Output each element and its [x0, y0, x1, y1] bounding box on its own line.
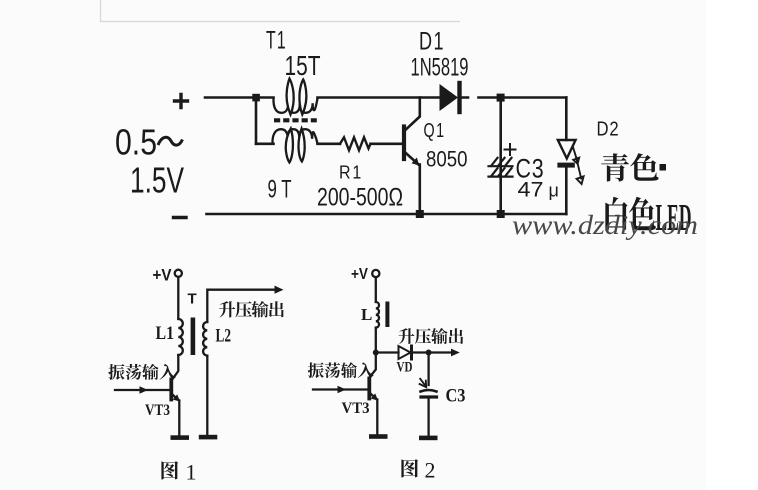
fig2 diode VD cathode bar [410, 346, 413, 359]
svg-text:1: 1 [186, 460, 197, 485]
svg-text:1N5819: 1N5819 [411, 54, 469, 82]
label cyan color [601, 153, 629, 181]
fig2 +V terminal circle [372, 270, 379, 277]
node junction emitter-bottom [416, 210, 424, 218]
svg-text:VT3: VT3 [342, 400, 370, 417]
svg-text:9 T: 9 T [268, 176, 292, 204]
LED D2 light arrow 1 [573, 147, 579, 164]
diode D1 cathode bar [457, 83, 461, 112]
fig2 capacitor C3 bottom plate [421, 395, 437, 398]
fig2 node L/VD junction [373, 350, 379, 356]
fig2 VT3 emitter [370, 393, 377, 400]
svg-text:+V: +V [351, 266, 368, 283]
fig1 output arrowhead [275, 286, 284, 294]
wire transformer bottom-left stub [256, 143, 274, 146]
resistor R1 zigzag [340, 137, 371, 150]
fig2 input arrowhead [338, 386, 347, 394]
transistor Q1 base bar [402, 127, 406, 160]
fig2 output arrowhead [451, 349, 460, 357]
fig2 wire node to VD [376, 351, 399, 353]
svg-text:0.5: 0.5 [115, 122, 157, 163]
transformer T1 primary winding 15T [273, 79, 317, 115]
capacitor C3 plus mark [505, 144, 516, 155]
fig1 wire L2 top to output corner [207, 290, 276, 322]
wire 9T to R1 [318, 143, 341, 146]
fig2 label osc input [308, 362, 324, 378]
fig2 wire C3 to ground [427, 398, 429, 436]
svg-text:C3: C3 [446, 386, 466, 407]
svg-text:T: T [188, 291, 197, 308]
fig1 wire emitter to ground [178, 401, 180, 435]
svg-text:L2: L2 [216, 326, 232, 347]
svg-text:VD: VD [397, 360, 413, 376]
fig2 wire VD to output node [412, 351, 456, 353]
fig2 base input wire [313, 388, 368, 390]
diode D1 anode triangle [440, 84, 459, 111]
svg-text:+V: +V [153, 266, 173, 285]
svg-text:VT3: VT3 [145, 402, 170, 419]
fig2 ground VT3 [369, 434, 388, 439]
fig1 ground L2 [199, 435, 218, 440]
fig2 wire node down to C3 [427, 353, 429, 386]
wire LED branch vertical top [565, 98, 568, 141]
transformer T1 core (dashed) [274, 118, 317, 122]
wire top rail left [205, 96, 274, 99]
wire D1 to node (with print gap) [461, 96, 497, 99]
svg-text:L1: L1 [156, 323, 175, 344]
node junction C3 bottom [497, 210, 505, 218]
faint page border line [101, 0, 461, 22]
fig1 base input wire [115, 389, 170, 391]
fig1 input arrowhead [140, 386, 149, 394]
fig1 ground VT3 [171, 435, 190, 440]
svg-text:D1: D1 [419, 28, 445, 56]
fig2 ground C3 [419, 436, 438, 441]
fig1 wire L2 bottom to ground [206, 356, 208, 435]
wire Q1 emitter to bottom rail [418, 165, 421, 215]
capacitor C3 bottom plate [489, 168, 513, 176]
transistor Q1 collector wire [405, 98, 420, 131]
LED D2 triangle [558, 140, 576, 159]
svg-text:L: L [361, 305, 372, 324]
fig1 caption [161, 461, 178, 479]
wire top rail to D1 [318, 96, 440, 99]
fig2 VT3 collector wire [370, 353, 376, 378]
wire bottom rail [207, 213, 567, 216]
label white LED [605, 197, 627, 231]
fig2 wire +V down to L [375, 277, 377, 301]
svg-text:www.dzdiy.com: www.dzdiy.com [512, 210, 698, 240]
svg-text:2: 2 [425, 458, 436, 483]
fig1 VT3 base bar [169, 380, 173, 400]
fig2 capacitor C3 top plate [421, 390, 437, 392]
svg-text:D2: D2 [597, 119, 620, 141]
wire node to LED branch corner [504, 96, 566, 99]
svg-text:1.5V: 1.5V [130, 160, 184, 201]
node junction after D1 [497, 94, 505, 102]
fig1 label boost output [219, 301, 235, 317]
fig2 inductor L winding [376, 302, 379, 328]
transformer T1 secondary winding 9T [272, 129, 317, 163]
wire C3 branch vertical [499, 98, 502, 215]
fig2 label boost output [399, 328, 415, 344]
fig1 inductor L2 winding [203, 322, 207, 356]
node junction top-left [252, 94, 260, 102]
fig1 transformer core bar [191, 318, 196, 356]
svg-text:200-500Ω: 200-500Ω [317, 184, 403, 212]
fig2 caption [401, 459, 418, 477]
fig2 node VD/C3 junction [426, 350, 432, 356]
fig2 diode VD triangle [399, 346, 411, 359]
wire R1 to Q1 base [371, 143, 403, 146]
svg-text:8050: 8050 [426, 147, 468, 172]
tilde of 0.5 [158, 137, 183, 145]
fig1 inductor L1 winding [178, 319, 183, 355]
svg-text:15T: 15T [285, 50, 321, 81]
wire LED to bottom rail [565, 168, 568, 214]
fig2 C3 plus tick [420, 379, 427, 387]
capacitor C3 top plate [489, 158, 513, 166]
battery plus terminal [175, 95, 188, 108]
fig1 label osc input [108, 364, 124, 380]
fig2 inductor core bar [385, 302, 389, 328]
LED D2 cathode bar [557, 163, 574, 168]
wire transformer left vertical [255, 99, 258, 144]
fig1 +V terminal circle [175, 270, 182, 277]
fig2 wire emitter to ground [376, 400, 378, 434]
svg-text:Q1: Q1 [424, 120, 446, 142]
LED D2 light arrow 2 [576, 158, 583, 185]
fig1 VT3 emitter [172, 394, 179, 401]
transistor Q1 emitter [405, 153, 418, 165]
svg-text:μ: μ [549, 181, 559, 201]
fig2 wire L to collector node [375, 328, 377, 353]
battery minus terminal [174, 216, 187, 219]
svg-text:R1: R1 [339, 163, 363, 183]
fig2 VT3 base bar [367, 379, 371, 399]
fig1 wire L1 to VT3 collector [172, 355, 179, 380]
fig1 wire +V down to L1 [177, 277, 179, 319]
svg-text:47: 47 [518, 179, 544, 202]
